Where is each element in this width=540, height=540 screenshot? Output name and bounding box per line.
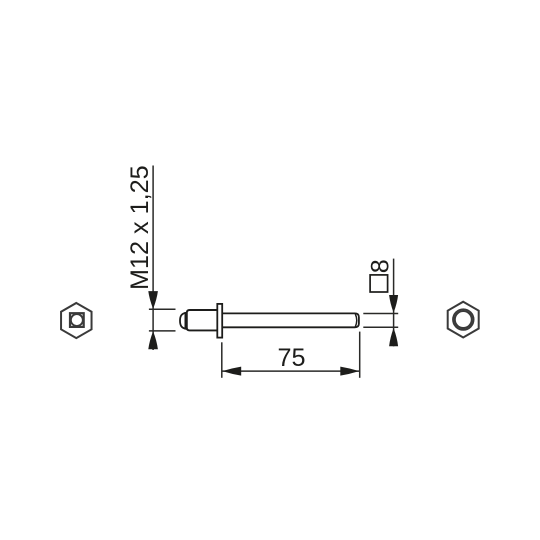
svg-text:M12 x 1,25: M12 x 1,25 xyxy=(126,165,154,290)
svg-text:8: 8 xyxy=(366,259,394,273)
svg-text:75: 75 xyxy=(277,344,305,372)
